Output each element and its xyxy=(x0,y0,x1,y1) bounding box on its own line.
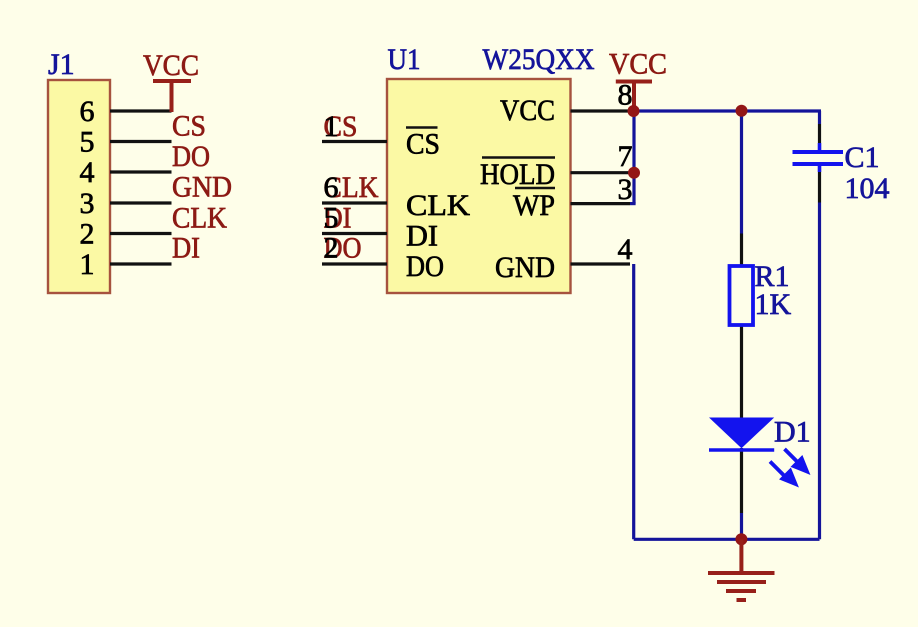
svg-text:VCC: VCC xyxy=(143,49,199,82)
svg-text:104: 104 xyxy=(845,172,890,205)
svg-text:GND: GND xyxy=(172,171,232,204)
svg-text:1: 1 xyxy=(324,110,339,143)
svg-text:GND: GND xyxy=(495,251,555,284)
svg-text:U1: U1 xyxy=(388,43,421,76)
svg-text:6: 6 xyxy=(324,171,339,204)
svg-text:4: 4 xyxy=(80,156,95,189)
svg-text:2: 2 xyxy=(324,232,339,265)
svg-text:1: 1 xyxy=(80,248,95,281)
svg-text:WP: WP xyxy=(513,189,555,222)
svg-text:6: 6 xyxy=(80,95,95,128)
svg-text:VCC: VCC xyxy=(609,48,667,81)
svg-text:3: 3 xyxy=(618,173,633,206)
svg-text:4: 4 xyxy=(618,233,633,266)
svg-text:DO: DO xyxy=(172,140,210,173)
svg-text:5: 5 xyxy=(324,202,339,235)
svg-text:J1: J1 xyxy=(48,48,75,81)
svg-text:1K: 1K xyxy=(755,288,792,321)
svg-text:CS: CS xyxy=(406,128,440,161)
svg-text:2: 2 xyxy=(80,218,95,251)
svg-text:VCC: VCC xyxy=(500,94,555,127)
svg-text:DO: DO xyxy=(406,250,444,283)
svg-text:CS: CS xyxy=(172,110,206,143)
svg-text:HOLD: HOLD xyxy=(480,158,555,191)
svg-text:5: 5 xyxy=(80,126,95,159)
svg-text:3: 3 xyxy=(80,187,95,220)
svg-text:DI: DI xyxy=(172,232,200,265)
svg-text:CLK: CLK xyxy=(406,189,470,222)
svg-text:DI: DI xyxy=(406,220,438,253)
svg-text:CLK: CLK xyxy=(172,202,227,235)
svg-text:C1: C1 xyxy=(845,141,880,174)
svg-text:W25QXX: W25QXX xyxy=(483,43,595,76)
svg-text:D1: D1 xyxy=(774,416,811,449)
